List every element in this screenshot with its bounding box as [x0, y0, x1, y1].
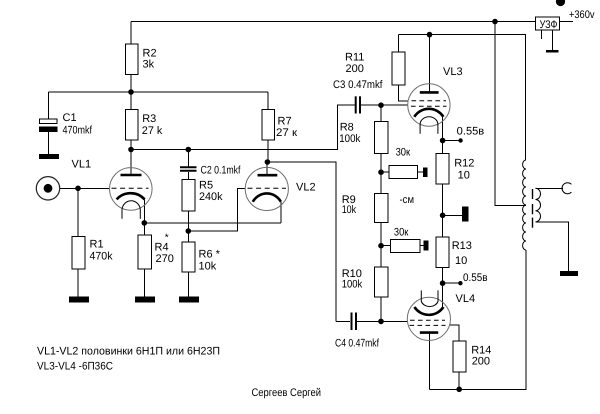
svg-text:200: 200	[472, 356, 490, 368]
label R1	[90, 239, 113, 263]
wire VL2 cathode lead	[280, 202, 282, 223]
wire VL3 grid wire	[381, 104, 408, 106]
svg-text:R5: R5	[199, 180, 213, 192]
resistor R14	[453, 341, 466, 372]
resistor R5	[182, 180, 195, 212]
wire R7 bottom lead	[267, 140, 269, 162]
svg-text:30к: 30к	[394, 227, 409, 239]
svg-text:VL1: VL1	[72, 159, 92, 171]
transformer T1 primary winding	[523, 160, 526, 250]
wire R10 bottom lead	[380, 297, 382, 321]
label R13	[452, 240, 472, 267]
svg-text:C2 0.1mkf: C2 0.1mkf	[201, 165, 242, 177]
transformer T1 secondary winding	[536, 188, 541, 222]
node R8/R9	[378, 169, 384, 175]
svg-text:*: *	[165, 233, 169, 244]
ground transformer secondary	[560, 271, 578, 276]
resistor R3	[126, 109, 139, 140]
svg-text:10k: 10k	[199, 261, 217, 273]
capacitor C1 negative plate	[39, 127, 57, 132]
svg-text:100k: 100k	[342, 279, 363, 291]
wire UZF stub pin	[540, 30, 542, 39]
resistor R11	[392, 52, 405, 85]
svg-text:VL3-VL4 -6П36С: VL3-VL4 -6П36С	[37, 361, 113, 373]
svg-text:VL2: VL2	[296, 182, 316, 194]
wire R13 top lead	[442, 215, 444, 237]
terminal bar 30k upper	[423, 168, 428, 178]
capacitor C1 positive plate	[40, 119, 58, 124]
resistor R2	[126, 44, 139, 75]
label R12	[454, 158, 474, 182]
svg-text:10k: 10k	[342, 204, 357, 216]
svg-text:10: 10	[458, 170, 470, 182]
wire C1 bottom lead	[47, 132, 49, 154]
wire VL4 cathode lead	[442, 283, 444, 307]
wire UZF ground lead	[551, 30, 553, 50]
node input/R1	[75, 186, 81, 192]
wire 30k lower left lead	[381, 245, 391, 247]
resistor 30k upper	[389, 166, 417, 179]
wire VL2 anode lead	[266, 162, 268, 175]
wire 0.55v stub VL4	[443, 282, 461, 284]
resistor R7	[262, 109, 275, 140]
node C4/R10/VL4 grid	[378, 319, 384, 325]
capacitor C2 plates	[180, 166, 197, 168]
wire C3 right lead	[361, 104, 381, 106]
svg-text:VL3: VL3	[443, 66, 463, 78]
svg-text:УЗФ: УЗФ	[540, 19, 558, 31]
wire R7 top lead	[267, 92, 269, 109]
node R14/VL4 anode	[456, 387, 462, 393]
node R2 bottom rail	[128, 89, 134, 95]
svg-text:30к: 30к	[396, 146, 411, 158]
node VL4 cathode	[440, 280, 446, 286]
wire R14 bottom lead	[458, 372, 460, 389]
svg-text:R6 *: R6 *	[199, 249, 221, 261]
wire C1 top lead	[47, 92, 49, 119]
capacitor C3 plates	[355, 96, 357, 113]
node test point dot VL3	[458, 138, 462, 142]
ground R1	[69, 297, 89, 303]
wire VL1 anode lead	[130, 150, 132, 176]
ground C1	[39, 154, 59, 159]
wire R11 bottom lead to VL3 screen grid	[399, 85, 409, 101]
terminal bar R12/R13 midpoint	[462, 206, 468, 221]
wire midpoint to terminal bar	[443, 214, 463, 216]
svg-text:200: 200	[346, 63, 364, 75]
input jack X1	[36, 177, 59, 200]
svg-text:+360v: +360v	[569, 9, 595, 21]
output connector	[562, 183, 571, 194]
node R9/R10	[378, 243, 384, 249]
svg-text:R3: R3	[142, 113, 156, 125]
svg-text:27 k: 27 k	[142, 125, 163, 137]
svg-text:VL4: VL4	[456, 293, 476, 305]
node junction dots	[75, 0, 565, 392]
resistor R12	[436, 154, 449, 185]
label R3	[142, 113, 163, 137]
label R7	[276, 116, 297, 139]
svg-text:R11: R11	[345, 52, 364, 64]
svg-text:R12: R12	[454, 158, 474, 170]
wire R8 bottom lead	[380, 153, 382, 172]
tube VL3	[408, 84, 450, 134]
wire top B+ rail	[131, 21, 573, 23]
node R5/R6/VL2 grid	[186, 228, 192, 234]
resistor R10	[374, 267, 388, 297]
label R5	[199, 180, 223, 204]
wire VL1 anode rail to C3	[131, 105, 355, 149]
svg-text:3k: 3k	[143, 59, 155, 71]
svg-text:100k: 100k	[339, 133, 360, 145]
wire VL4 screen grid to R14	[450, 325, 459, 341]
resistor R6	[182, 242, 195, 272]
node C3/R8/VL3 grid	[378, 102, 384, 108]
wire R3 top lead	[130, 92, 132, 109]
wire 30k upper right lead	[417, 171, 423, 173]
label R9	[342, 194, 357, 216]
node C2 tap	[186, 147, 192, 153]
label R8	[339, 122, 360, 146]
label C1	[63, 112, 93, 137]
wire B+ bus to transformer tap	[495, 22, 526, 206]
node VL3 cathode	[440, 138, 446, 144]
wire R6 top lead	[187, 231, 189, 242]
svg-text:R1: R1	[90, 239, 104, 251]
svg-text:270: 270	[156, 253, 174, 265]
svg-text:R7: R7	[278, 116, 292, 128]
node B+ terminal dot	[556, 0, 565, 6]
wire R4 bottom lead	[143, 269, 145, 297]
wire R5 bottom lead	[187, 211, 189, 231]
label R10	[342, 268, 363, 291]
resistor R1	[72, 236, 85, 269]
wire R9 top lead	[380, 172, 382, 193]
resistor R8	[374, 122, 388, 154]
wire VL3 anode rail to transformer primary top	[399, 35, 526, 160]
svg-text:0.55в: 0.55в	[457, 125, 485, 137]
capacitor C4 plates	[351, 313, 353, 331]
wire R11 top lead	[398, 35, 400, 52]
wire R1 bottom lead	[77, 269, 79, 297]
wire R12 top lead	[442, 141, 444, 154]
svg-text:10: 10	[455, 255, 467, 267]
resistor R9	[374, 193, 388, 222]
svg-text:R13: R13	[452, 240, 472, 252]
svg-text:C1: C1	[63, 112, 77, 124]
wire common cathode rail	[144, 222, 281, 224]
wire VL2 anode rail down to C4	[267, 162, 336, 321]
label R2	[143, 48, 157, 71]
svg-text:0.55в: 0.55в	[463, 272, 488, 284]
label R11	[345, 52, 364, 76]
wire input jack to VL1 grid	[60, 187, 110, 189]
wire R13 bottom lead	[442, 267, 444, 283]
filter box UZF	[535, 17, 559, 30]
wire 30k lower right lead	[420, 245, 423, 247]
wire bottom anode rail to transformer primary bottom	[430, 250, 526, 389]
ground UZF	[546, 50, 558, 53]
wire R10 top lead	[380, 246, 382, 267]
svg-text:C3 0.47mkf: C3 0.47mkf	[333, 79, 383, 91]
wire R1 top lead	[77, 188, 79, 236]
svg-text:R8: R8	[340, 122, 354, 134]
wire R4 top lead	[143, 223, 145, 235]
wire VL2 grid wire	[188, 188, 245, 231]
svg-text:VL1-VL2 половинки 6Н1П или 6Н2: VL1-VL2 половинки 6Н1П или 6Н23П	[37, 346, 220, 358]
wire VL3 cathode lead	[442, 117, 444, 141]
svg-text:470k: 470k	[90, 251, 113, 263]
label R6	[199, 249, 221, 273]
resistor R4	[138, 235, 152, 269]
resistor 30k lower	[391, 240, 421, 253]
wire R8 top lead	[380, 105, 382, 122]
node top rail / B+ bus	[492, 19, 498, 25]
wire C2 top lead	[187, 150, 189, 167]
svg-text:470mkf: 470mkf	[63, 125, 93, 137]
wire R9 bottom lead	[380, 223, 382, 246]
node VL1/VL2 cathodes / R4	[142, 220, 148, 226]
node VL2 anode	[265, 159, 271, 165]
wire 30k upper left lead	[381, 171, 389, 173]
label R14	[471, 344, 491, 367]
wire C4 left lead	[336, 320, 350, 322]
wire transformer secondary top lead	[536, 187, 563, 189]
wire VL1 cathode lead	[143, 200, 145, 223]
wire 0.55v stub VL3	[443, 140, 461, 142]
tube VL4 (inverted)	[407, 290, 450, 340]
svg-text:27 к: 27 к	[276, 127, 297, 139]
wire R12 bottom lead	[442, 184, 444, 215]
wire R2 top lead	[130, 22, 132, 45]
label R4	[155, 233, 174, 266]
terminal bar 30k lower	[424, 241, 429, 251]
wire VL3 plate lead	[429, 35, 431, 92]
wire VL4 grid wire	[381, 320, 408, 322]
svg-text:Сергеев Сергей: Сергеев Сергей	[252, 387, 322, 399]
wire C4 right lead	[357, 320, 381, 322]
svg-text:C4 0.47mkf: C4 0.47mkf	[335, 338, 380, 350]
wire VL4 plate lead	[429, 334, 431, 390]
ground R6	[179, 297, 199, 303]
wire R2 bottom lead	[130, 75, 132, 93]
ground R4	[135, 297, 155, 303]
wire R3 bottom lead	[130, 140, 132, 150]
svg-text:-см: -см	[400, 194, 415, 206]
triode VL2	[245, 167, 288, 210]
node R12/R13 midpoint	[440, 213, 446, 219]
node VL3 anode	[427, 32, 433, 38]
wire decoupled rail y=92	[48, 91, 268, 93]
triode VL1	[110, 168, 153, 219]
node VL1 anode	[128, 147, 134, 153]
svg-text:240k: 240k	[199, 191, 223, 203]
wire C2-R5 link	[187, 172, 189, 180]
svg-text:R14: R14	[471, 344, 491, 356]
resistor R13	[436, 237, 449, 267]
wire transformer secondary bottom lead	[536, 222, 569, 271]
node test point dot VL4	[458, 281, 462, 285]
wire R6 bottom lead	[187, 272, 189, 297]
transformer T1 core	[532, 189, 534, 228]
